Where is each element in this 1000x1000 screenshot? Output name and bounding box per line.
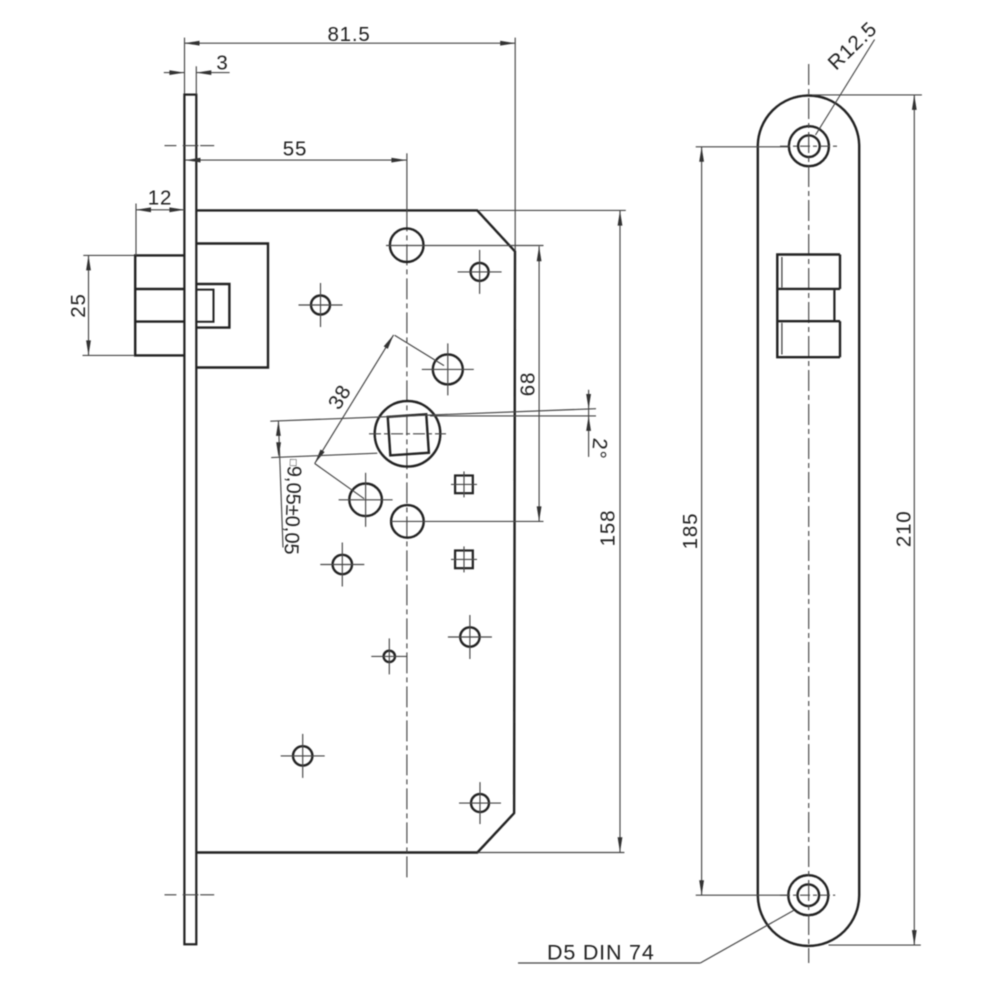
svg-text:81.5: 81.5 [327,23,370,46]
svg-text:55: 55 [283,137,307,160]
svg-text:185: 185 [679,513,702,550]
svg-text:D5 DIN 74: D5 DIN 74 [547,941,655,965]
svg-text:210: 210 [893,510,916,547]
svg-text:12: 12 [148,187,172,210]
svg-text:3: 3 [216,52,228,75]
svg-text:25: 25 [67,293,90,317]
svg-text:68: 68 [517,372,540,396]
svg-text:2°: 2° [587,437,612,460]
svg-text:158: 158 [597,510,620,547]
svg-text:□9,05±0,05: □9,05±0,05 [280,459,305,555]
